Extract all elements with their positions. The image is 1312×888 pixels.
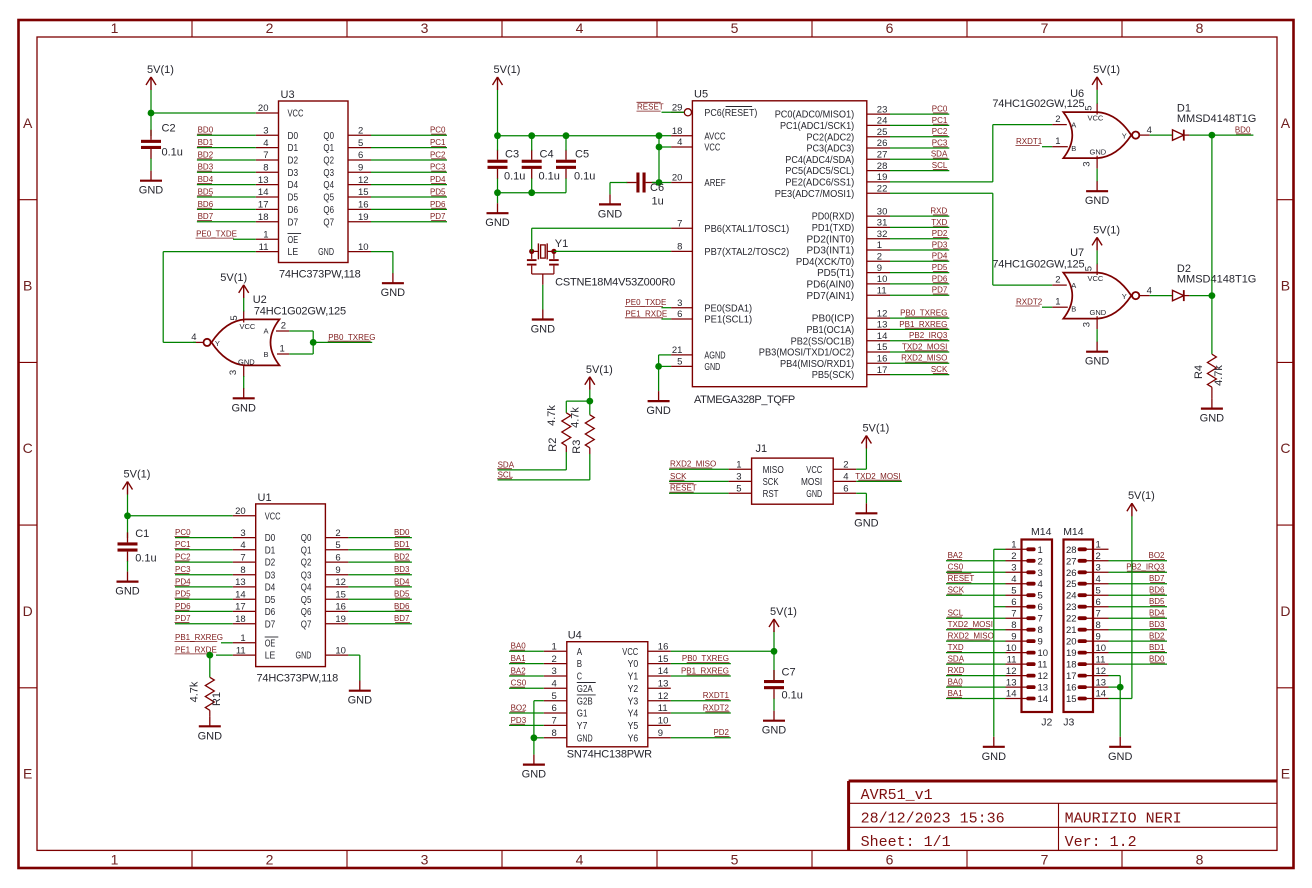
U1 pin 2 (Q0) bbox=[301, 528, 349, 544]
svg-text:7: 7 bbox=[1038, 614, 1043, 625]
svg-text:15: 15 bbox=[358, 187, 369, 198]
wire R1 bottom to ground bbox=[209, 710, 211, 716]
wire R2 to SDA bbox=[498, 446, 567, 470]
svg-text:D7: D7 bbox=[265, 618, 276, 630]
svg-text:J1: J1 bbox=[756, 443, 768, 455]
svg-text:5: 5 bbox=[677, 357, 682, 368]
svg-text:PE0(SDA1): PE0(SDA1) bbox=[704, 302, 752, 314]
ic U5 ATMEGA328P body bbox=[692, 89, 866, 406]
svg-text:6: 6 bbox=[843, 484, 848, 495]
svg-text:27: 27 bbox=[877, 150, 888, 161]
wire J3 pin15 to 5V bbox=[1109, 516, 1132, 699]
svg-text:0.1u: 0.1u bbox=[135, 553, 156, 565]
svg-text:4: 4 bbox=[1147, 285, 1152, 296]
wire U5 pin19 to U6 A bbox=[890, 125, 1052, 182]
J3 pin 27 bbox=[1066, 551, 1109, 567]
node 5V/C3 junction bbox=[494, 132, 501, 139]
svg-text:B: B bbox=[577, 658, 582, 670]
U1 pin 13 (D4) bbox=[233, 577, 276, 593]
svg-text:GND: GND bbox=[318, 246, 334, 258]
svg-text:14: 14 bbox=[1096, 689, 1107, 700]
svg-text:GND: GND bbox=[531, 324, 556, 336]
U4 pin 2 (B) bbox=[544, 654, 582, 670]
svg-text:5: 5 bbox=[552, 691, 557, 702]
svg-text:Y5: Y5 bbox=[628, 720, 639, 732]
svg-text:14: 14 bbox=[658, 666, 669, 677]
U4 pin 10 (Y5) bbox=[628, 716, 671, 732]
svg-text:74HC373PW,118: 74HC373PW,118 bbox=[279, 269, 361, 281]
svg-text:19: 19 bbox=[358, 212, 369, 223]
svg-text:6: 6 bbox=[1096, 597, 1101, 608]
svg-text:Y1: Y1 bbox=[628, 671, 639, 683]
svg-text:3: 3 bbox=[677, 298, 682, 309]
svg-text:11: 11 bbox=[1096, 654, 1106, 665]
U4 pin 11 (Y4) bbox=[628, 703, 671, 719]
svg-text:D2: D2 bbox=[288, 155, 299, 167]
svg-text:2: 2 bbox=[843, 459, 848, 470]
svg-text:32: 32 bbox=[877, 229, 888, 240]
svg-text:RESET: RESET bbox=[948, 574, 975, 583]
wire / net label BD6 bbox=[348, 602, 412, 612]
wire / net label PB2_IRQ3 bbox=[890, 331, 949, 341]
U6 pin 2 (A) bbox=[1052, 114, 1067, 125]
svg-text:5V(1): 5V(1) bbox=[147, 64, 174, 76]
U5 pin 16 (PB4(MISO/RXD1)) bbox=[780, 354, 890, 370]
svg-text:SDA: SDA bbox=[948, 655, 965, 664]
svg-text:PE1(SCL1): PE1(SCL1) bbox=[704, 314, 752, 326]
svg-text:BD1: BD1 bbox=[198, 138, 214, 147]
wire / net label BD1 from J3 pin 19 bbox=[1109, 643, 1168, 653]
U2 pin 4 (Y) output bbox=[191, 332, 203, 343]
U5 pin 25 (PC2(ADC2)) bbox=[807, 127, 891, 143]
svg-text:PC2(ADC2): PC2(ADC2) bbox=[807, 131, 855, 143]
wire / net label BD2 bbox=[348, 553, 412, 563]
svg-text:1: 1 bbox=[1011, 540, 1016, 551]
U3 pin 3 (D0) bbox=[256, 126, 298, 142]
svg-text:M14: M14 bbox=[1063, 526, 1084, 538]
svg-text:Q6: Q6 bbox=[301, 606, 312, 618]
wire / net label BA2 bbox=[509, 666, 544, 676]
svg-text:25: 25 bbox=[877, 127, 888, 138]
svg-text:GND: GND bbox=[854, 517, 879, 529]
svg-text:19: 19 bbox=[877, 172, 888, 183]
U4 pin 14 (Y1) bbox=[628, 666, 671, 682]
J2 pin 12 bbox=[1006, 666, 1049, 682]
svg-text:8: 8 bbox=[1196, 851, 1204, 867]
U4 pin 5 (G2B) bbox=[544, 691, 596, 707]
wire / net label BD1 bbox=[348, 540, 412, 550]
svg-text:BD6: BD6 bbox=[1149, 586, 1165, 595]
wire U1 pin10 to ground bbox=[348, 655, 359, 681]
svg-text:74HC373PW,118: 74HC373PW,118 bbox=[257, 673, 339, 685]
svg-text:2: 2 bbox=[335, 528, 340, 539]
wire / net label PC3 bbox=[371, 163, 447, 173]
svg-text:11: 11 bbox=[259, 242, 269, 253]
U7 pin 1 (B) bbox=[1052, 297, 1068, 308]
svg-text:G2A: G2A bbox=[577, 683, 593, 695]
svg-text:20: 20 bbox=[672, 173, 683, 184]
wire / net label BD4 bbox=[197, 175, 256, 185]
svg-text:BD5: BD5 bbox=[394, 590, 410, 599]
wire / net label BD6 bbox=[197, 200, 256, 210]
svg-text:3: 3 bbox=[1096, 563, 1101, 574]
svg-text:11: 11 bbox=[1007, 654, 1017, 665]
svg-text:12: 12 bbox=[658, 691, 669, 702]
svg-text:VCC: VCC bbox=[806, 464, 822, 476]
svg-text:28: 28 bbox=[1066, 545, 1077, 556]
ic U3 74HC373PW body bbox=[279, 89, 361, 281]
svg-text:BD2: BD2 bbox=[1149, 632, 1165, 641]
svg-text:18: 18 bbox=[1066, 660, 1077, 671]
wire / net label BA1 bbox=[509, 654, 544, 664]
svg-text:GND: GND bbox=[1090, 148, 1107, 157]
svg-text:26: 26 bbox=[877, 138, 888, 149]
svg-text:BO2: BO2 bbox=[511, 703, 528, 712]
svg-text:9: 9 bbox=[658, 728, 663, 739]
U3 pin 6 (Q2) bbox=[323, 150, 371, 166]
svg-text:4: 4 bbox=[576, 851, 584, 867]
svg-text:SCL: SCL bbox=[948, 609, 964, 618]
svg-text:A: A bbox=[1071, 281, 1076, 290]
svg-text:15: 15 bbox=[877, 342, 888, 353]
svg-text:24: 24 bbox=[1066, 591, 1077, 602]
svg-text:PC2: PC2 bbox=[932, 127, 948, 136]
power 5V(1) bbox=[1092, 64, 1120, 90]
wire / net label PD6 bbox=[371, 200, 447, 210]
svg-text:10: 10 bbox=[658, 716, 669, 727]
wire 5V to C2/U3 VCC bbox=[151, 90, 256, 136]
svg-text:BD7: BD7 bbox=[198, 212, 214, 221]
J2 pin 14 bbox=[1006, 689, 1049, 705]
ground bbox=[115, 572, 140, 598]
svg-text:GND: GND bbox=[1200, 413, 1225, 425]
svg-text:PB2_IRQ3: PB2_IRQ3 bbox=[909, 331, 948, 340]
svg-text:5V(1): 5V(1) bbox=[586, 364, 613, 376]
svg-text:4: 4 bbox=[552, 679, 557, 690]
svg-text:MAURIZIO NERI: MAURIZIO NERI bbox=[1065, 811, 1182, 828]
wire 5V to U6 VCC bbox=[1096, 90, 1098, 104]
U3 pin 4 (D1) bbox=[256, 138, 298, 154]
U4 pin 6 (G1) bbox=[544, 703, 588, 719]
svg-text:14: 14 bbox=[877, 331, 888, 342]
svg-text:5: 5 bbox=[229, 315, 240, 320]
svg-text:GND: GND bbox=[1090, 308, 1107, 317]
svg-text:GND: GND bbox=[522, 769, 547, 781]
svg-text:PB2(SS/OC1B): PB2(SS/OC1B) bbox=[791, 335, 855, 347]
connector J2 body bbox=[1022, 526, 1053, 729]
wire / net label PD7 bbox=[890, 286, 949, 296]
J3 pin 17 bbox=[1066, 666, 1109, 682]
svg-text:AREF: AREF bbox=[704, 177, 725, 189]
svg-text:5V(1): 5V(1) bbox=[1093, 64, 1120, 76]
svg-text:GND: GND bbox=[762, 725, 787, 737]
svg-text:PC4(ADC4/SDA): PC4(ADC4/SDA) bbox=[785, 154, 854, 166]
svg-text:D1: D1 bbox=[265, 544, 276, 556]
wire C3/C4/C5 top leads bbox=[498, 136, 567, 151]
svg-text:PE2(ADC6/SS1): PE2(ADC6/SS1) bbox=[785, 177, 854, 189]
wire U2 GND pin to ground bbox=[243, 376, 245, 389]
svg-text:PD7: PD7 bbox=[430, 212, 446, 221]
svg-text:CSTNE18M4V53Z000R0: CSTNE18M4V53Z000R0 bbox=[555, 277, 675, 289]
svg-text:J3: J3 bbox=[1063, 717, 1074, 729]
J2 pin 7 bbox=[1006, 608, 1043, 624]
svg-text:GND: GND bbox=[198, 730, 223, 742]
capacitor C7 bbox=[764, 667, 803, 702]
U4 pin 4 (G2A) bbox=[544, 679, 596, 695]
U1 pin 3 (D0) bbox=[233, 528, 276, 544]
wire R3 to SCL bbox=[498, 448, 590, 480]
svg-text:9: 9 bbox=[335, 565, 340, 576]
svg-text:R4: R4 bbox=[1193, 365, 1205, 379]
svg-text:PD5: PD5 bbox=[430, 187, 446, 196]
svg-text:OE: OE bbox=[265, 637, 276, 649]
U3 pin 14 (D5) bbox=[256, 187, 298, 203]
svg-text:BD3: BD3 bbox=[1149, 620, 1165, 629]
svg-text:VCC: VCC bbox=[704, 142, 720, 154]
svg-text:Q7: Q7 bbox=[323, 216, 334, 228]
wire / net label PD7 bbox=[371, 212, 447, 222]
svg-text:D0: D0 bbox=[265, 532, 276, 544]
wire C6 leads bbox=[610, 183, 659, 195]
svg-text:RXD: RXD bbox=[930, 207, 947, 216]
svg-text:G1: G1 bbox=[577, 708, 588, 720]
svg-text:PD5: PD5 bbox=[932, 263, 948, 272]
wire / net label BD6 from J3 pin 24 bbox=[1109, 586, 1168, 596]
U5 pin 28 (PC5(ADC5/SCL)) bbox=[785, 161, 890, 177]
svg-text:BA0: BA0 bbox=[948, 678, 964, 687]
power 5V(1) bbox=[1092, 224, 1120, 250]
svg-text:5: 5 bbox=[1038, 591, 1043, 602]
svg-text:5V(1): 5V(1) bbox=[1128, 490, 1155, 502]
wire / net label PB0_TXREG bbox=[890, 309, 949, 319]
svg-text:Q4: Q4 bbox=[323, 179, 334, 191]
U5 pin 12 (PB0(ICP)) bbox=[812, 308, 890, 324]
svg-text:MMSD4148T1G: MMSD4148T1G bbox=[1177, 273, 1256, 285]
ic U1 74HC373PW body bbox=[256, 492, 338, 685]
J3 pin 21 bbox=[1066, 620, 1109, 636]
U5 pin 30 (PD0(RXD)) bbox=[812, 206, 890, 222]
svg-text:D5: D5 bbox=[288, 192, 299, 204]
svg-text:BD5: BD5 bbox=[198, 187, 214, 196]
wire D2 to BD0 node bbox=[1184, 295, 1212, 297]
svg-text:23: 23 bbox=[877, 104, 888, 115]
wire Y1 case to ground bbox=[542, 274, 544, 310]
wire / net label PB1_RXREG bbox=[890, 320, 949, 330]
svg-text:BD1: BD1 bbox=[1149, 643, 1165, 652]
svg-text:6: 6 bbox=[886, 851, 894, 867]
J3 pin 20 bbox=[1066, 631, 1109, 647]
wire / net label PC2 bbox=[175, 553, 233, 563]
U5 pin 13 (PB1(OC1A)) bbox=[807, 320, 891, 336]
U4 pin 15 (Y0) bbox=[628, 654, 671, 670]
svg-text:0.1u: 0.1u bbox=[574, 171, 595, 183]
svg-text:0.1u: 0.1u bbox=[782, 690, 803, 702]
svg-text:20: 20 bbox=[235, 506, 246, 517]
svg-text:6: 6 bbox=[1011, 597, 1016, 608]
svg-text:3: 3 bbox=[421, 851, 429, 867]
svg-text:0.1u: 0.1u bbox=[162, 147, 183, 159]
U1 pin 12 (Q4) bbox=[301, 577, 349, 593]
svg-text:5: 5 bbox=[358, 138, 363, 149]
svg-text:7: 7 bbox=[1041, 851, 1049, 867]
U4 pin 12 (Y3) bbox=[628, 691, 671, 707]
wire D1 to BD0 node bbox=[1184, 134, 1254, 136]
svg-text:1: 1 bbox=[552, 642, 557, 653]
svg-text:13: 13 bbox=[877, 320, 888, 331]
wire / net label BD7 from J3 pin 25 bbox=[1109, 574, 1168, 584]
svg-text:BD5: BD5 bbox=[1149, 597, 1165, 606]
svg-text:8: 8 bbox=[240, 565, 245, 576]
wire / net label CS0 bbox=[509, 679, 544, 689]
ground bbox=[982, 737, 1007, 763]
svg-text:5: 5 bbox=[736, 484, 741, 495]
U7 pin 2 (A) bbox=[1052, 275, 1067, 286]
node VCC junction bbox=[656, 144, 663, 151]
wire / net label SCL bbox=[890, 161, 949, 171]
svg-text:12: 12 bbox=[1006, 666, 1017, 677]
svg-text:0.1u: 0.1u bbox=[539, 171, 560, 183]
wire U3 pin10 to ground bbox=[371, 252, 393, 274]
power 5V(1) bbox=[861, 423, 889, 449]
svg-text:PC2: PC2 bbox=[430, 150, 446, 159]
svg-text:28/12/2023 15:36: 28/12/2023 15:36 bbox=[861, 811, 1005, 828]
svg-text:19: 19 bbox=[1066, 648, 1077, 659]
J1 pin 5 (RST) bbox=[729, 484, 779, 500]
svg-text:Y6: Y6 bbox=[628, 732, 639, 744]
svg-text:Q1: Q1 bbox=[323, 142, 334, 154]
svg-text:21: 21 bbox=[672, 345, 683, 356]
J2 pin 13 bbox=[1006, 677, 1049, 693]
svg-text:PB1_RXREG: PB1_RXREG bbox=[175, 633, 223, 642]
svg-text:Y: Y bbox=[1122, 292, 1127, 301]
svg-text:7: 7 bbox=[240, 552, 245, 563]
svg-text:D: D bbox=[1280, 603, 1290, 619]
J3 pin 23 bbox=[1066, 597, 1109, 613]
wire / net label SDA to J2 pin 11 bbox=[946, 655, 1006, 665]
svg-text:C7: C7 bbox=[782, 667, 796, 679]
svg-text:VCC: VCC bbox=[1088, 274, 1104, 283]
nor gate U7 74HC1G02GW bbox=[992, 247, 1139, 319]
svg-text:5: 5 bbox=[731, 851, 739, 867]
svg-text:4.7k: 4.7k bbox=[570, 407, 582, 428]
wire U5 pin22 to U7 A bbox=[890, 193, 1052, 285]
svg-text:31: 31 bbox=[877, 218, 888, 229]
U5 pin 2 (PD4(XCK/T0)) bbox=[796, 252, 890, 268]
svg-text:D1: D1 bbox=[288, 142, 299, 154]
wire / net label RESET to U5 pin29 bbox=[637, 102, 685, 112]
svg-text:10: 10 bbox=[358, 242, 369, 253]
svg-text:A: A bbox=[1071, 120, 1076, 129]
power 5V(1) bbox=[769, 606, 797, 632]
U4 pin 8 (GND) bbox=[544, 728, 593, 744]
svg-text:8: 8 bbox=[677, 242, 682, 253]
wire / net label TXD2_MOSI bbox=[890, 342, 949, 352]
svg-text:17: 17 bbox=[235, 602, 246, 613]
svg-text:PB3(MOSI/TXD1/OC2): PB3(MOSI/TXD1/OC2) bbox=[759, 347, 854, 359]
wire J1 pin6 to ground bbox=[856, 493, 866, 503]
J3 pin 25 bbox=[1066, 574, 1109, 590]
svg-text:BD4: BD4 bbox=[198, 175, 214, 184]
svg-text:13: 13 bbox=[1096, 677, 1107, 688]
svg-text:Q1: Q1 bbox=[301, 544, 312, 556]
svg-text:GND: GND bbox=[1108, 751, 1133, 763]
svg-text:PD6: PD6 bbox=[430, 200, 446, 209]
svg-text:8: 8 bbox=[1011, 620, 1016, 631]
wire / net label PD3 bbox=[890, 240, 949, 250]
U3 pin 7 (D2) bbox=[256, 150, 298, 166]
U1 pin 17 (D6) bbox=[233, 602, 276, 618]
svg-text:Sheet: 1/1: Sheet: 1/1 bbox=[861, 834, 951, 851]
svg-text:GND: GND bbox=[231, 402, 256, 414]
ground bbox=[198, 716, 223, 742]
U5 pin 10 (PD6(AIN0)) bbox=[807, 274, 891, 290]
wire / net label PC2 bbox=[890, 127, 949, 137]
svg-text:GND: GND bbox=[139, 185, 164, 197]
wire / net label PD2 bbox=[890, 229, 949, 239]
svg-text:PB4(MISO/RXD1): PB4(MISO/RXD1) bbox=[780, 358, 854, 370]
U5 pin 24 (PC1(ADC1/SCK1)) bbox=[780, 116, 890, 132]
svg-text:8: 8 bbox=[1038, 625, 1043, 636]
wire / net label TXD2_MOSI from J1 pin4 bbox=[855, 472, 902, 482]
wire / net label BD5 bbox=[197, 187, 256, 197]
svg-text:GND: GND bbox=[348, 695, 373, 707]
svg-text:6: 6 bbox=[552, 703, 557, 714]
svg-text:BD0: BD0 bbox=[1149, 655, 1165, 664]
node AVCC junction bbox=[656, 132, 663, 139]
capacitor C2 bbox=[141, 123, 183, 160]
wire 5V to R2/R3 bbox=[566, 390, 590, 415]
svg-text:2: 2 bbox=[1055, 275, 1060, 286]
svg-text:1u: 1u bbox=[652, 196, 664, 208]
svg-text:3: 3 bbox=[263, 126, 268, 137]
svg-text:12: 12 bbox=[877, 308, 888, 319]
U7 pin 3 (GND) bbox=[1082, 316, 1098, 329]
svg-text:0.1u: 0.1u bbox=[504, 171, 525, 183]
svg-text:GND: GND bbox=[1085, 356, 1110, 368]
wire / net label BD3 bbox=[197, 163, 256, 173]
svg-text:2: 2 bbox=[877, 252, 882, 263]
svg-text:1: 1 bbox=[1038, 545, 1043, 556]
svg-text:2: 2 bbox=[1055, 114, 1060, 125]
svg-text:18: 18 bbox=[258, 212, 269, 223]
wire / net label RESET to J1 pin5 bbox=[669, 483, 729, 493]
wire / net label PC3 bbox=[890, 138, 949, 148]
svg-text:Y0: Y0 bbox=[628, 658, 639, 670]
node U2 output junction bbox=[310, 339, 317, 346]
svg-text:2: 2 bbox=[281, 321, 286, 332]
svg-text:5: 5 bbox=[335, 540, 340, 551]
node D1 output junction bbox=[1209, 132, 1216, 139]
svg-text:1: 1 bbox=[111, 851, 119, 867]
svg-text:VCC: VCC bbox=[240, 322, 256, 331]
svg-text:MMSD4148T1G: MMSD4148T1G bbox=[1177, 113, 1256, 125]
wire U7 Y to D2 bbox=[1150, 295, 1173, 297]
svg-text:4.7k: 4.7k bbox=[189, 681, 201, 702]
wire / net label PD5 bbox=[175, 590, 233, 600]
svg-text:PD1(TXD): PD1(TXD) bbox=[812, 222, 854, 234]
svg-text:PD4: PD4 bbox=[932, 252, 948, 261]
wire / net label PB1_RXREG to U1 OE bbox=[175, 633, 233, 643]
svg-text:12: 12 bbox=[335, 577, 346, 588]
svg-text:3: 3 bbox=[240, 528, 245, 539]
svg-text:9: 9 bbox=[358, 163, 363, 174]
svg-text:14: 14 bbox=[1038, 694, 1049, 705]
U1 pin 5 (Q1) bbox=[301, 540, 349, 556]
U5 pin 22 (PE3(ADC7/MOSI1)) bbox=[775, 183, 890, 199]
svg-text:13: 13 bbox=[235, 577, 246, 588]
svg-text:AVR51_v1: AVR51_v1 bbox=[861, 787, 933, 804]
wire / net label SCL to J2 pin 7 bbox=[946, 609, 1006, 619]
